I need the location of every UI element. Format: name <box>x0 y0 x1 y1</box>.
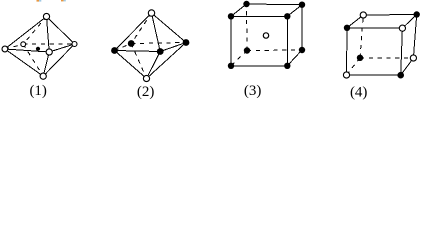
svg-text:(2): (2) <box>137 84 155 100</box>
svg-text:(1): (1) <box>29 83 47 99</box>
svg-text:(4): (4) <box>350 85 368 101</box>
svg-text:(3): (3) <box>244 83 262 99</box>
